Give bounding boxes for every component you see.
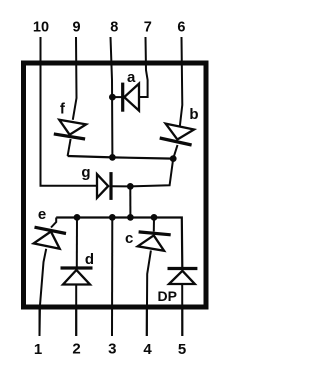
svg-text:7: 7: [144, 20, 152, 36]
junction dot g-cathode: [127, 183, 134, 190]
diode DP (vertical, cathode upper bar): [168, 269, 198, 285]
svg-text:9: 9: [73, 20, 81, 36]
wire diode c cathode drop: [153, 217, 155, 231]
svg-text:4: 4: [143, 341, 152, 358]
junction dot pin 8 / upper bus: [109, 154, 116, 161]
wire diode d cathode drop: [76, 217, 78, 267]
svg-text:a: a: [127, 69, 136, 86]
wire diode g cathode to lower bus: [129, 186, 131, 217]
junction dot b-cathode / upper bus: [170, 155, 177, 162]
junction dot c-cathode / lower bus: [151, 214, 158, 221]
diode b (tilted, cathode lower-left): [160, 124, 194, 145]
wire pin 6 to diode b anode: [180, 37, 183, 127]
svg-text:f: f: [60, 101, 66, 118]
junction dot g-drop / lower bus: [127, 214, 134, 221]
svg-text:b: b: [189, 106, 198, 123]
wire cathode bus upper (f,a,b to pin 8): [68, 156, 174, 159]
wire diode c anode to pin 4: [147, 251, 151, 337]
wire cathode bus lower (e,d,c,DP to pin 3): [56, 218, 182, 268]
diode g (horizontal, cathode right): [97, 172, 130, 200]
svg-text:2: 2: [72, 341, 80, 358]
diode d (vertical, cathode upper bar): [61, 268, 93, 285]
wire diode DP anode to pin 5: [181, 284, 183, 336]
diode f (tilted, cathode lower-left): [54, 120, 86, 139]
wire pin 9 to diode f anode: [73, 37, 77, 120]
svg-text:DP: DP: [157, 288, 176, 304]
svg-text:6: 6: [177, 20, 185, 36]
wire diode g cathode to upper bus: [130, 159, 173, 187]
wire pin 10 to diode g anode: [41, 37, 97, 186]
svg-text:g: g: [81, 164, 90, 181]
svg-text:c: c: [125, 230, 133, 247]
svg-text:e: e: [38, 206, 46, 223]
wire pin 2 stub: [75, 309, 77, 336]
diode c (tilted, cathode upper bar): [138, 232, 171, 251]
wire pin 4 stub: [146, 309, 148, 336]
svg-text:8: 8: [110, 20, 118, 36]
svg-text:5: 5: [178, 341, 186, 358]
junction dot d-cathode / lower bus: [74, 214, 81, 221]
svg-text:1: 1: [34, 341, 42, 358]
diode e (tilted, cathode upper bar): [34, 227, 66, 249]
wire pin 1 stub: [39, 309, 41, 336]
junction dot a-cathode / pin 8: [109, 94, 116, 101]
junction dot pin 3 / lower bus: [109, 214, 116, 221]
package outline U1: [24, 63, 207, 307]
svg-text:d: d: [85, 251, 94, 268]
diode a (horizontal, cathode left): [112, 83, 139, 112]
svg-text:3: 3: [108, 341, 116, 358]
wire pin 3 common-cathode column: [111, 217, 113, 336]
wire diode d anode to pin 2: [75, 286, 77, 337]
wire pin 8 common-cathode column: [111, 37, 113, 157]
wire diode b cathode drop: [173, 145, 177, 159]
svg-text:10: 10: [33, 20, 49, 36]
wire pin 5 stub: [181, 309, 183, 336]
wire pin 7 to diode a anode: [139, 37, 147, 97]
wire diode f cathode drop: [68, 139, 71, 156]
wire diode e anode to pin 1: [40, 249, 47, 336]
wire diode e cathode elbow: [51, 218, 56, 228]
